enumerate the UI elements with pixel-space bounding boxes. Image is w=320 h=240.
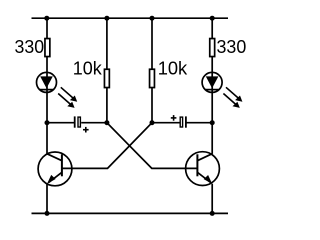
capacitor C1 (left, polarized)	[75, 116, 89, 132]
LED D2 (right)	[202, 72, 242, 108]
resistor R2 10k (mid-left)	[73, 57, 110, 87]
wire left cap row left segment	[47, 122, 75, 124]
transistor Q1 (left NPN)	[38, 152, 72, 186]
resistor R1 330 (left)	[15, 36, 50, 57]
junction top rail left	[44, 16, 49, 21]
svg-text:330: 330	[15, 36, 45, 57]
wire cross-coupling node A to Q2 base	[107, 123, 197, 169]
wire mid-left branch (rail through R2 to node)	[106, 18, 108, 123]
svg-text:330: 330	[217, 36, 247, 57]
junction top rail mid-right	[150, 16, 155, 21]
junction node right cap row	[210, 120, 215, 125]
LED D1 (left)	[37, 72, 78, 108]
wire right branch upper (rail to Q2 collector)	[211, 18, 213, 154]
junction ground rail right	[210, 211, 215, 216]
wire cross-coupling node B to Q1 base	[62, 123, 152, 169]
svg-text:10k: 10k	[73, 57, 103, 78]
wire right cap row left segment	[152, 122, 180, 124]
wire mid-right branch (rail through R3 to node)	[151, 18, 153, 123]
wire left branch upper (rail to Q1 collector)	[46, 18, 48, 154]
junction node B	[150, 120, 155, 125]
wire right cap row right segment	[186, 122, 212, 124]
junction top rail right	[210, 16, 215, 21]
svg-text:10k: 10k	[158, 57, 188, 78]
junction node left cap row	[45, 120, 50, 125]
junction node A	[104, 120, 109, 125]
resistor R3 10k (mid-right)	[150, 57, 189, 87]
junction top rail mid-left	[104, 16, 109, 21]
capacitor C2 (right, polarized)	[171, 115, 186, 128]
wire right branch lower (Q2 emitter to ground rail)	[211, 184, 213, 214]
resistor R4 330 (right)	[210, 36, 247, 57]
wire top supply rail	[32, 17, 229, 19]
junction ground rail left	[45, 211, 50, 216]
transistor Q2 (right NPN)	[186, 152, 220, 186]
wire bottom ground rail	[32, 212, 229, 214]
wire left cap row right segment	[81, 122, 107, 124]
wire left branch lower (Q1 emitter to ground rail)	[46, 184, 48, 213]
